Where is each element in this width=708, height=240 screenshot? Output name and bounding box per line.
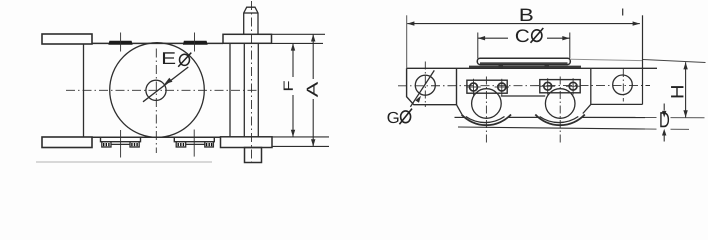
dim D lower line [663, 136, 665, 142]
left view: leader slash through hub [143, 67, 188, 102]
left view: top clamp 2 [184, 41, 208, 44]
right view: frame bottom line A left stub [455, 116, 465, 118]
left view: top clamp 1 [109, 41, 132, 44]
right view: top bar [477, 58, 570, 64]
left view: bolt stem above flange [244, 7, 258, 34]
label B [521, 9, 533, 21]
right view: rail line B [458, 127, 645, 129]
right view: bracket 2 [540, 80, 580, 93]
scan smear bottom left view [36, 161, 212, 163]
left view: bolt top flange [223, 34, 272, 43]
right view: wheel 2 outer arc [535, 115, 585, 126]
right view: bracket 2 screw right [569, 82, 577, 90]
label Cφ [516, 29, 529, 42]
left view: vertical centerline [155, 49, 157, 154]
right view: left plate hole [415, 75, 435, 95]
dim B arrows [407, 21, 640, 25]
left view: hub circle Eφ [146, 80, 166, 100]
left view: bolt bottom flange [221, 137, 273, 148]
dim B line [407, 23, 640, 25]
dim F/A bottom extension line 2 [273, 145, 330, 147]
dim B left extension [406, 15, 408, 68]
dim C extension left [477, 33, 479, 59]
right view: bracket 2 screw left centerline [547, 78, 549, 94]
right view: bracket 1 screw right [498, 83, 506, 91]
left view: bottom flange bar [42, 137, 92, 148]
right view: bracket 1 [467, 80, 507, 93]
right view: roller 1 hub circle [472, 89, 502, 119]
right view: dark band under bar [469, 66, 581, 68]
left view: bolt body right line [257, 43, 259, 136]
label F [284, 81, 293, 90]
right view: wheel 1 outer arc [462, 115, 512, 126]
left view: bottom clamp 2 right foot [205, 142, 214, 147]
left view: frame left edge [83, 44, 85, 137]
dim D lower arrow [662, 129, 666, 136]
dim F/A top extension line 2 [272, 42, 323, 44]
dim F line lower [292, 95, 294, 137]
right view: roller 1 vertical centerline [485, 77, 487, 144]
dim F arrows [291, 43, 295, 136]
right view: roller 2 hub circle [545, 89, 575, 119]
right view: bracket 1 screw right centerline [501, 79, 503, 96]
dim C extension right [569, 33, 571, 59]
right view: bar bottom inner line [480, 62, 568, 64]
dim H line [685, 62, 687, 117]
right view: bracket 1 screw left centerline [473, 79, 475, 96]
left view: bottom clamp 2 centerline [193, 130, 195, 157]
dim F line upper [292, 43, 294, 77]
right view: H top extension line [643, 60, 706, 63]
dim A arrows [311, 34, 315, 146]
right view: roller 2 vertical centerline [559, 77, 561, 144]
label A [307, 82, 318, 97]
left view: bottom clamp 1 right foot [130, 142, 139, 147]
left view: wheel circle [110, 43, 205, 138]
right view: right plate hole [613, 75, 633, 95]
dim F/A top extension line 1 [272, 33, 325, 35]
right view: line B extension for D [645, 128, 657, 130]
right view: left plate outline [407, 68, 457, 104]
right view: junction diagonal right [583, 104, 591, 113]
right view: body top edge [407, 67, 657, 69]
right view: horizontal centerline [398, 85, 650, 87]
right view: right plate bottom edge [591, 103, 643, 105]
right view: right plate right edge and B extension [642, 15, 644, 104]
label H [671, 86, 683, 97]
dim F/A bottom extension line 1 [273, 136, 330, 138]
left view: leader arrowhead at hub [164, 78, 172, 85]
dim D upper arrow [662, 111, 666, 118]
left view: bottom clamp 1 left foot [102, 142, 111, 147]
right view: wheel 2 inner arc [540, 117, 579, 123]
dim D upper line [663, 104, 665, 111]
left view: top clamp 2 centerline [194, 33, 196, 52]
stray tick near B [622, 9, 624, 16]
right view: right plate left edge [590, 68, 592, 104]
right view: right plate hole vertical centerline [622, 69, 624, 102]
left view: bottom clamp 1 foot ticks [104, 143, 137, 146]
label D [660, 112, 669, 127]
dim H arrows [683, 62, 687, 117]
right view: faint bar-top extension [571, 59, 643, 60]
right view: Gφ arrowhead [415, 96, 421, 103]
right view: bracket 1 screw left [470, 83, 478, 91]
left view: frame right edge [229, 43, 231, 137]
left view: bolt centerline [251, 1, 253, 165]
dim C line right [547, 37, 570, 39]
left view: top flange bar [42, 34, 92, 44]
label Gφ [388, 112, 399, 123]
right view: web line between rollers [501, 95, 545, 97]
right view: wheel 1 inner arc [466, 117, 505, 123]
label Eφ [163, 52, 175, 64]
left view: top clamp 1 centerline [120, 33, 122, 52]
dim A line upper [312, 34, 314, 79]
dim A line lower [312, 99, 314, 146]
left view: horizontal centerline [66, 89, 258, 91]
right view: frame bottom line A middle [509, 116, 538, 118]
left view: bottom clamp 2 foot ticks [178, 143, 211, 146]
dim C line left [478, 37, 508, 39]
right view: bracket 2 screw right centerline [572, 78, 574, 94]
dim C arrows [478, 36, 570, 40]
right view: bar foot 2 [545, 65, 550, 68]
left view: bottom clamp 2 inner bar [186, 143, 205, 145]
left view: bottom clamp 1 inner bar [111, 143, 130, 145]
left view: frame top rail [92, 42, 223, 44]
right view: junction diagonal left [457, 105, 462, 115]
left view: bolt body left line [243, 43, 245, 136]
right view: Gφ leader slash [410, 70, 434, 106]
right view: bracket 2 screw left [544, 82, 552, 90]
left view: bottom clamp 2 outline [174, 137, 214, 141]
left view: bottom clamp 1 centerline [120, 130, 122, 158]
left view: bottom clamp 1 outline [101, 137, 141, 141]
right view: left plate hole vertical centerline [424, 62, 426, 108]
left view: bolt shoulder line [244, 12, 258, 14]
left view: frame bottom rail [92, 136, 221, 138]
right view: bar foot 1 [499, 65, 504, 68]
right view: frame bottom line A right [583, 116, 645, 118]
left view: bottom clamp 2 left foot [176, 142, 186, 147]
right view: line A extension for H and D [645, 117, 657, 119]
left view: bolt nut below [245, 148, 262, 163]
